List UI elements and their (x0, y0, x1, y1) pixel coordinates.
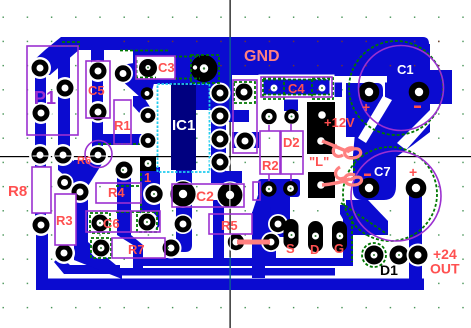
green dash along pin1 trace (140, 168, 142, 218)
pad R2-2 (261, 181, 276, 196)
GND plane above 12V pocket (305, 50, 342, 98)
green dash C4 top edge (263, 79, 330, 81)
svg-text:R1: R1 (114, 118, 131, 133)
pad C2-2 big (216, 181, 244, 209)
green dash right of G (351, 216, 353, 262)
svg-text:"L": "L" (309, 154, 329, 169)
wire: horizontal trace to IC1 pin7 (92, 134, 152, 152)
wire: S-pocket blue region (259, 196, 353, 266)
resistor R3 outline (55, 194, 76, 245)
green circle around D1-1 (362, 243, 386, 267)
GND plane upper-middle block with C3 (133, 37, 232, 110)
white interior of C3 (136, 56, 175, 79)
capacitor C6 pad box (131, 211, 160, 232)
capacitor C5 outline (86, 61, 110, 118)
pad P1-2 (54, 77, 76, 99)
pad P1-4 (29, 144, 51, 166)
svg-text:R4: R4 (108, 185, 125, 200)
wire: C1 right-pad zone (394, 70, 452, 104)
resistor R5 outline (209, 214, 252, 234)
pad OUT (407, 244, 430, 267)
crosshair vertical axis (230, 0, 231, 328)
wire: stub above block P3 (317, 168, 324, 173)
wire: diagonal stub to IC1 pad6 (133, 96, 152, 118)
svg-text:+: + (409, 164, 417, 180)
svg-text:+: + (362, 99, 370, 115)
pad node B (234, 130, 256, 152)
pad R3-2 (53, 242, 75, 264)
svg-text:R2: R2 (262, 158, 279, 173)
wire: C7 plus pad trace down (409, 194, 422, 282)
pad node A (233, 81, 255, 103)
wire: blue lobe around pad 280,224 (270, 206, 290, 237)
green dash blob bottom (135, 77, 156, 79)
wire: R8 vertical to bottom (35, 150, 46, 230)
green dash along C7 lobe left (353, 158, 355, 188)
capacitor C3 outline (136, 56, 175, 79)
pad Q1 D oval (308, 221, 323, 252)
pad C1-1 plus (359, 82, 380, 103)
connector P1 outline (27, 46, 78, 135)
pad R4-1 (69, 181, 91, 203)
pad C6-1 (89, 212, 111, 234)
IC1 body navy (171, 83, 196, 170)
wire: C5 bottom to R6 (92, 108, 103, 146)
pad C3-1 (139, 59, 157, 77)
green dash along band top P1 (62, 41, 80, 43)
pad C5-2 (87, 101, 109, 123)
pad C6-2 (136, 211, 158, 233)
resistor R8 outline (32, 167, 51, 213)
wire: stub to R3 pad1 (66, 177, 76, 187)
svg-text:R6: R6 (77, 155, 91, 167)
pad D1-1 (363, 244, 386, 267)
svg-text:C6: C6 (103, 216, 120, 231)
svg-text:OUT: OUT (430, 261, 460, 277)
green dash trace edge 2 (116, 211, 158, 213)
squiggle mark 1 (333, 145, 360, 158)
blue row left of R2 (232, 132, 259, 148)
pad wire2 (261, 232, 281, 252)
wire: right of G vertical (343, 214, 353, 266)
wire: top GND band (61, 37, 429, 50)
wire: R5 right vertical down (252, 212, 265, 278)
pad IC1-5 (141, 87, 154, 100)
wire: P1 pad3 to crosshair pad vertical (35, 110, 46, 158)
svg-text:C7: C7 (374, 164, 391, 179)
pad R5-2 (268, 214, 288, 234)
capacitor C1 outline circle (359, 46, 444, 131)
svg-text:+12V: +12V (324, 115, 355, 130)
capacitor C7 outline circle (351, 151, 441, 241)
pad C7-2 plus (406, 178, 427, 199)
wire: diagonal down-left from C7 lobe (340, 200, 388, 235)
green dash along lobe top edge (120, 50, 170, 52)
pad R5-1 (173, 214, 193, 234)
wire: pad 124,170 down behind R4 C6 (117, 176, 143, 272)
wire: bottom bar A (133, 258, 353, 266)
svg-text:P1: P1 (34, 88, 56, 108)
cyan outline IC1 (158, 84, 210, 172)
green dash trace edge (116, 185, 142, 187)
white pocket around +12V blocks (302, 97, 346, 205)
pad block P2 square1 (307, 102, 335, 154)
D2 top stub (290, 124, 292, 131)
green square around C4-1 (263, 78, 284, 99)
ratsnest wire from block P3 (322, 179, 350, 185)
blue row behind R2 D2 top pads (226, 110, 249, 122)
wire: diagonal into bar C (74, 242, 122, 279)
svg-text:D2: D2 (283, 135, 300, 150)
green square around C6-1 (90, 213, 110, 233)
wire: C2 left pad vertical down (176, 162, 192, 252)
wire: C5 vertical through pads (92, 60, 103, 118)
green dash along trace y134 (98, 143, 150, 145)
pad IC1-6 (139, 107, 157, 125)
svg-text:C5: C5 (88, 83, 105, 98)
svg-text:C1: C1 (397, 62, 414, 77)
green dashed circle C7 (343, 147, 437, 241)
pad C1-2 minus (409, 82, 430, 103)
pad D2-1 (284, 109, 298, 123)
svg-text:G: G (334, 241, 344, 256)
pad R6 wiper (88, 145, 108, 165)
wire: left thin trace to bar B (54, 256, 120, 274)
green dashed circle C1 (349, 41, 443, 135)
wire: mid-left wide vertical (74, 160, 88, 254)
wire: blob R1 to C3 pad net (116, 60, 156, 98)
wire: diagonal R6 pad down to wide vertical (76, 156, 105, 186)
trimmer R6 outline circle (85, 141, 112, 168)
wire: IC1 right rail (211, 81, 226, 183)
teal crosshair over copper (230, 37, 231, 110)
white strip above C1 plus block (334, 76, 387, 83)
svg-text:R8: R8 (8, 183, 27, 200)
pad Q1 G oval (332, 221, 347, 252)
wire: blue below C1 minus pad (385, 95, 430, 105)
capacitor C6 outline (86, 211, 131, 232)
wire: bottom right L trace (345, 279, 424, 291)
wire: bottom bar C (36, 279, 424, 291)
wire: diagonal from pad P1-5 to wide vertical (58, 157, 88, 186)
component outline between IC1 and R2 (233, 80, 257, 153)
wire: C1 plus pad block (334, 83, 383, 137)
label C7 minus mark (364, 174, 371, 177)
wire: C2-2 pad down to bar A (213, 200, 224, 260)
big double pad GND (191, 55, 218, 82)
pad Q1 S oval (284, 219, 299, 249)
wire: blue right of C1 pocket (385, 82, 429, 95)
pad C5-1 (87, 60, 109, 82)
wire: P1 col2 vertical from band to crosshair pad (58, 44, 70, 158)
green square around big pad (191, 55, 219, 83)
green dash blob left (136, 60, 138, 79)
wire: bottom-left vertical to bar (36, 222, 48, 284)
green square around C4-2 (312, 78, 333, 99)
resistor R7 outline (112, 238, 165, 258)
svg-text:S: S (286, 241, 295, 256)
R2 pad stub (268, 174, 270, 181)
pad IC1-9 (210, 106, 231, 127)
C4 interior copper (259, 75, 332, 99)
drill marks (147, 67, 149, 69)
R2 top stub (268, 125, 270, 131)
grid dots over copper plane (110, 37, 452, 75)
GND plane right top block (305, 50, 429, 82)
green dash along top-left trace (53, 45, 80, 47)
pad IC1-7 (139, 132, 157, 150)
wire: bottom bar B (118, 268, 335, 276)
blue pocket R2 D2 bottom pads (258, 179, 300, 197)
label C1 minus mark (414, 106, 421, 109)
pad wire1 (226, 232, 246, 252)
svg-text:C2: C2 (196, 188, 214, 204)
svg-text:D1: D1 (380, 262, 398, 278)
svg-text:C4: C4 (288, 81, 305, 96)
pad D2-2 (283, 181, 298, 196)
crosshair slits over pads (33, 156, 231, 251)
pad C7-1 minus (359, 178, 380, 199)
pad C2-1 big (169, 180, 197, 208)
white diagonal gap left (358, 96, 392, 143)
small outline near S pad (253, 182, 260, 200)
svg-text:IC1: IC1 (172, 117, 195, 134)
green dash C4 bottom edge (263, 94, 330, 96)
capacitor C2 outline (172, 184, 244, 207)
pad P1-1 (29, 57, 51, 79)
resistor R1 outline (114, 100, 131, 144)
squiggle mark 2 (336, 167, 362, 185)
wire: C5 top stub from band (91, 44, 104, 74)
wire: diagonal from band to P1 pad1 (33, 37, 80, 75)
wire: rail flare to C2-2 (211, 171, 242, 183)
svg-text:1: 1 (144, 170, 151, 185)
pad R2-1 (261, 109, 276, 124)
pad C4-1 plane hole (271, 85, 278, 92)
svg-text:D: D (310, 242, 319, 257)
white diagonal gap right (397, 110, 430, 150)
pad R7-2 (161, 238, 182, 259)
wire: diagonal band C1 to C7 and C7 minus lobe (353, 103, 430, 200)
ratsnest wire from block P2 (322, 141, 347, 151)
green dash diagonal to S region (341, 203, 387, 234)
pad R1-1 (113, 64, 133, 84)
crosshair horizontal axis (0, 156, 471, 157)
wire: stub above D2-1 pad (284, 97, 298, 111)
diode D2 outline (281, 131, 303, 174)
wire: right edge strip (424, 44, 430, 104)
pad IC1-8 (210, 83, 231, 104)
pad R7-1 (90, 237, 112, 259)
pad IC1-1 square (140, 156, 156, 171)
pad R8-2 (30, 214, 52, 236)
pad IC1-10 (210, 129, 231, 150)
pad R3-1 (56, 174, 74, 192)
pad P1-3 (30, 102, 52, 124)
pad C4-2 plane hole (319, 85, 326, 92)
green square around R7-1 (91, 238, 111, 258)
green square around node A pad (234, 82, 255, 103)
IC1 notch (173, 160, 192, 170)
pad R4-2 (143, 183, 165, 205)
green square around C6-2 (137, 212, 157, 232)
pad R1-2 (114, 160, 135, 181)
svg-text:GND: GND (244, 48, 280, 65)
GND lobe right of big pad (232, 37, 342, 75)
white pocket D1 (355, 240, 409, 276)
svg-text:R5: R5 (221, 218, 238, 233)
resistor R4 outline (96, 183, 141, 203)
svg-text:R7: R7 (128, 242, 145, 257)
svg-text:C3: C3 (158, 60, 175, 75)
capacitor C4 outline (261, 77, 332, 97)
green dash C3 extension bottom (174, 78, 200, 80)
pad D1-2 (388, 244, 411, 267)
pad block P3 square2 (308, 172, 335, 198)
wire: wide trace below pin1 pad (140, 167, 160, 230)
ratsnest wire R5 to S (237, 240, 270, 245)
pad IC1-11 (210, 152, 231, 173)
pad P1-5 (52, 144, 74, 166)
D2 pad stub (290, 174, 292, 181)
svg-text:R3: R3 (56, 213, 73, 228)
green dash C3 extension top (174, 56, 200, 58)
wire: pocket diagonal to R5 vertical (252, 195, 270, 213)
resistor R2 outline (260, 131, 280, 174)
wire: P1 pad1-pad3 vertical (35, 62, 46, 120)
